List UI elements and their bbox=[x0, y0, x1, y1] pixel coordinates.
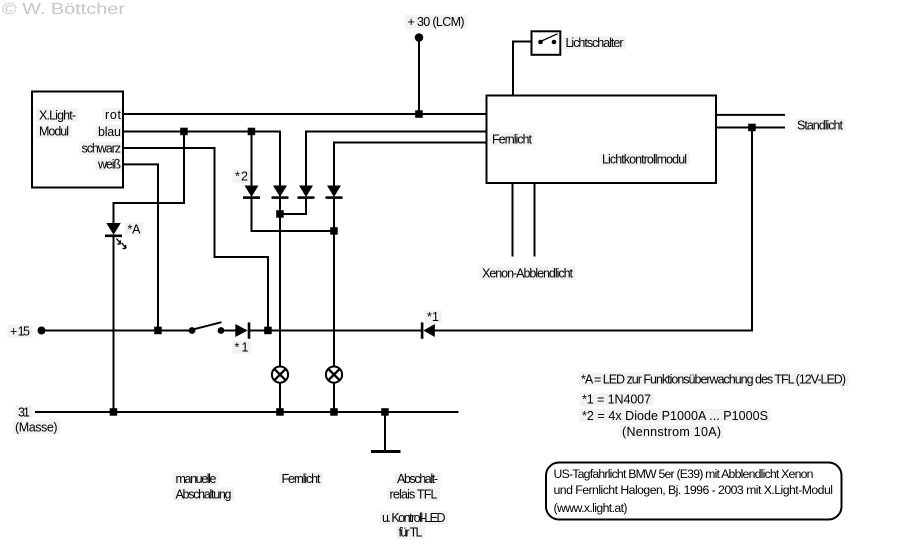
LED arrows bbox=[117, 239, 121, 245]
svg-text:*A = LED zur Funktionsüberwach: *A = LED zur Funktionsüberwachung des TF… bbox=[581, 372, 846, 386]
svg-text:manuelle: manuelle bbox=[176, 472, 217, 486]
wire D3 cathode: down, left to lamp1 line bbox=[280, 199, 306, 214]
svg-text:Fernlicht: Fernlicht bbox=[492, 132, 533, 146]
junction D1/lamp2 line bbox=[330, 227, 338, 235]
svg-text:(www.x.light.at): (www.x.light.at) bbox=[554, 501, 628, 515]
svg-text:weiß: weiß bbox=[97, 157, 121, 171]
wire Fernlicht feed 1: from LCM to diode D3 bbox=[306, 132, 487, 186]
svg-text:+ 15: + 15 bbox=[10, 324, 30, 338]
svg-text:schwarz: schwarz bbox=[82, 141, 122, 155]
svg-text:Xenon-Abblendlicht: Xenon-Abblendlicht bbox=[482, 266, 574, 280]
svg-text:X.Light-: X.Light- bbox=[39, 108, 76, 122]
junction LED/31 bbox=[110, 408, 118, 416]
svg-text:*2: *2 bbox=[235, 169, 248, 183]
wire rot horizontal bbox=[124, 113, 487, 115]
ground bbox=[371, 450, 401, 453]
wire lamp L2 to rail 31 bbox=[333, 382, 335, 412]
LED *A bbox=[106, 223, 121, 235]
junction relay/31 bbox=[381, 408, 389, 416]
+30 terminal dot bbox=[415, 33, 424, 42]
svg-text:Abschaltung: Abschaltung bbox=[176, 487, 232, 501]
wire +15 rail left segment bbox=[42, 330, 193, 332]
svg-text:relais TFL: relais TFL bbox=[390, 487, 438, 501]
svg-text:© W. Böttcher: © W. Böttcher bbox=[2, 1, 126, 18]
title box bbox=[546, 463, 842, 520]
wire blau horizontal with corner down to diode D2 bbox=[124, 132, 280, 186]
svg-text:Lichtschalter: Lichtschalter bbox=[566, 36, 624, 50]
svg-text:31: 31 bbox=[18, 405, 30, 419]
wire +15 rail right segment, corner up to Standlicht line bbox=[434, 128, 752, 331]
wire Lichtschalter to LCM bbox=[513, 42, 532, 96]
Lichtkontrollmodul box U2 bbox=[487, 96, 717, 184]
svg-text:Fernlicht: Fernlicht bbox=[282, 472, 322, 486]
wire D2 cathode down to lamp L1 bbox=[279, 199, 281, 367]
svg-text:*2 = 4x Diode P1000A ... P: *2 = 4x Diode P1000A ... P1000S bbox=[582, 409, 768, 423]
wire Xenon lamp 2 bbox=[534, 183, 536, 257]
wire switch to diode D5 bbox=[221, 330, 236, 332]
wire Standlicht upper bbox=[716, 114, 785, 116]
wire +15 rail mid segment bbox=[249, 330, 422, 332]
svg-text:für TL: für TL bbox=[399, 525, 423, 539]
junction schwarz/+15 bbox=[264, 327, 272, 335]
svg-text:(Masse): (Masse) bbox=[15, 420, 58, 434]
svg-text:blau: blau bbox=[98, 125, 121, 139]
Lichtschalter box S2 bbox=[532, 31, 561, 55]
svg-text:*A: *A bbox=[128, 222, 142, 236]
svg-text:(Nennstrom 10A): (Nennstrom 10A) bbox=[622, 425, 721, 439]
wire to ground symbol bbox=[384, 412, 386, 452]
svg-text:+ 30 (LCM): + 30 (LCM) bbox=[408, 15, 465, 29]
lamp L2 Fernlicht bbox=[326, 367, 342, 383]
wire schwarz: right, down, right, down to +15 rail bbox=[124, 148, 268, 331]
junction D3/lamp1 line bbox=[276, 210, 284, 218]
svg-text:US-Tagfahrlicht BMW 5er (E39): US-Tagfahrlicht BMW 5er (E39) mit Abblen… bbox=[554, 467, 814, 481]
wire Xenon lamp 1 bbox=[512, 183, 514, 257]
junction L2/31 bbox=[330, 408, 338, 416]
junction blau/LED branch bbox=[180, 128, 188, 136]
svg-text:*1 = 1N4007: *1 = 1N4007 bbox=[582, 392, 651, 406]
svg-text:u. Kontroll-LED: u. Kontroll-LED bbox=[382, 511, 446, 525]
svg-text:* 1: * 1 bbox=[235, 340, 249, 354]
svg-text:*1: *1 bbox=[427, 310, 439, 324]
wire Standlicht lower bbox=[716, 127, 785, 129]
wire Fernlicht feed 2: from LCM to diode D4 bbox=[334, 143, 487, 186]
+15 terminal dot bbox=[38, 327, 46, 335]
junction Standlicht/+15 feed bbox=[748, 124, 756, 132]
wire rail 31 bbox=[35, 411, 459, 413]
svg-text:Modul: Modul bbox=[39, 124, 69, 138]
svg-text:rot: rot bbox=[105, 108, 122, 122]
wire weiss: right, down to +15 rail bbox=[124, 164, 158, 330]
svg-text:und Fernlicht Halogen, Bj. 199: und Fernlicht Halogen, Bj. 1996 - 2003 m… bbox=[554, 483, 834, 497]
diode D2 (*2) bbox=[273, 186, 287, 198]
wire +30 vertical bbox=[418, 38, 420, 115]
svg-text:Standlicht: Standlicht bbox=[797, 118, 844, 132]
wire D4 cathode down to lamp L2 bbox=[333, 199, 335, 367]
wire LED branch: down, left, down to LED anode bbox=[114, 132, 185, 224]
switch S1 manual cutoff bbox=[189, 327, 196, 334]
junction weiss/+15 bbox=[154, 327, 162, 335]
diode D1 (*2) bbox=[245, 186, 259, 198]
wire LED cathode down to ground rail 31 bbox=[113, 237, 115, 412]
junction blau/D1 branch bbox=[248, 128, 256, 136]
lamp L1 Fernlicht bbox=[272, 367, 288, 383]
junction +30/rot bbox=[415, 110, 423, 118]
diode D4 (*2) bbox=[327, 186, 341, 198]
wire lamp L1 to rail 31 bbox=[279, 382, 281, 412]
svg-text:Abschalt-: Abschalt- bbox=[397, 472, 438, 486]
wire D1 cathode: down, right to lamp2 line bbox=[252, 199, 335, 231]
diode D5 (*1) bbox=[235, 324, 247, 337]
X.Light-Modul box U1 bbox=[32, 92, 123, 188]
svg-text:Lichtkontrollmodul: Lichtkontrollmodul bbox=[602, 152, 687, 166]
diode D6 (*1) bbox=[421, 322, 424, 338]
junction L1/31 bbox=[276, 408, 284, 416]
wire D1 feed vertical bbox=[251, 132, 253, 186]
diode D3 (*2) bbox=[299, 186, 313, 198]
